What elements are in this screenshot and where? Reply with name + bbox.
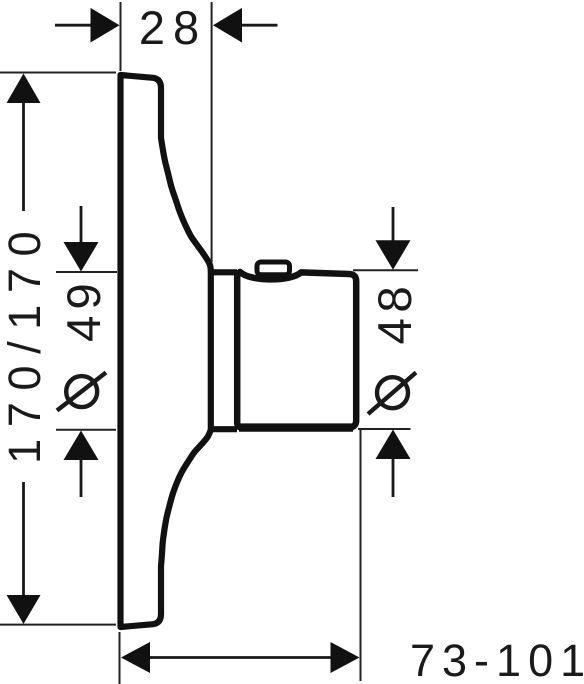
bottom extension line E5 (left)	[119, 632, 121, 684]
dim 28 right arrow	[213, 8, 242, 43]
svg-text:170/170: 170/170	[0, 220, 50, 464]
bottom extension line E6 (right)	[360, 429, 362, 681]
svg-text:73-101: 73-101	[410, 635, 584, 684]
Ø49 bottom arrow (up)	[64, 431, 99, 461]
Ø49 bottom extension line	[56, 429, 116, 431]
hub sleeve bottom stub	[208, 426, 237, 432]
Ø49 top stem	[80, 206, 83, 244]
Ø48 bottom extension line	[358, 428, 411, 430]
Ø symbol right: circle	[377, 377, 408, 408]
dim 170/170 top stem	[22, 102, 25, 211]
Ø48 bottom stem	[392, 457, 395, 497]
dim 170/170 bottom stem	[22, 482, 25, 596]
handle body	[237, 272, 356, 428]
dim 28 right stem	[242, 24, 278, 27]
Ø48 bottom arrow (up)	[376, 430, 411, 460]
extension line E4 (170 bottom)	[0, 624, 116, 626]
svg-text:49: 49	[58, 277, 111, 342]
Ø48 top arrow (down)	[376, 240, 411, 269]
dim 170/170 bottom arrow	[7, 595, 41, 624]
Ø48 top stem	[392, 207, 395, 243]
extension line E1 (28 left)	[120, 2, 122, 71]
bottom dim left arrow	[121, 642, 150, 673]
Ø symbol left: circle	[66, 376, 97, 407]
dim 28 left stem	[55, 24, 93, 27]
Ø49 top extension line	[56, 271, 117, 273]
Ø49 bottom stem	[80, 458, 83, 497]
escutcheon plate outline	[121, 75, 211, 627]
dim 28 left arrow	[91, 8, 120, 43]
dim 170/170 top arrow	[7, 74, 41, 104]
handle bottom edge (thicker)	[239, 423, 353, 431]
extension line E3 (170 top)	[0, 72, 116, 74]
svg-text:48: 48	[369, 281, 422, 345]
bottom dim line	[149, 656, 331, 659]
hub sleeve top stub	[208, 269, 237, 275]
Ø symbol right: slash	[368, 373, 416, 415]
Ø48 top extension line	[353, 269, 418, 271]
extension line E2 (28 right)	[211, 2, 213, 262]
svg-text:28: 28	[139, 1, 207, 54]
bottom dim right arrow	[331, 642, 360, 673]
Ø49 top arrow (down)	[64, 242, 99, 272]
Ø symbol left: slash	[57, 373, 106, 411]
button on handle	[257, 262, 290, 275]
